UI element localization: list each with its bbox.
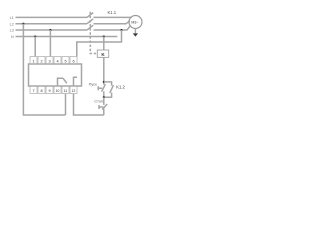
contactor K1.1 mechanical link dashed	[90, 12, 97, 54]
terminal 5	[62, 57, 69, 65]
node L2 tap junction	[22, 23, 24, 25]
ground lead	[134, 29, 136, 34]
node N tap junction for terminal 1	[34, 35, 36, 37]
wire N to terminal 1	[34, 37, 36, 57]
contact K1.2 bottom stub and return wire	[104, 93, 112, 98]
contactor K1.1 pole 1 blade	[87, 13, 93, 18]
svg-text:K1.2: K1.2	[116, 84, 125, 89]
svg-text:3: 3	[48, 59, 50, 63]
relay A1 device box	[29, 64, 82, 86]
node L3 tap junction for terminal 3	[49, 29, 51, 31]
wire terminal 12 to stop button	[74, 94, 104, 116]
wire L2 line	[16, 23, 88, 25]
node L3 tap junction for coil branch	[120, 29, 122, 31]
svg-text:5: 5	[64, 59, 66, 63]
svg-text:L2: L2	[10, 22, 14, 26]
svg-text:1: 1	[32, 59, 34, 63]
relay output contact blade	[63, 78, 67, 83]
svg-text:L1: L1	[10, 16, 14, 20]
node N tap junction for coil	[103, 35, 105, 37]
wire N line	[16, 36, 118, 38]
wire L2 drop to bottom loop	[23, 24, 65, 115]
motor M1 circle	[129, 16, 142, 29]
terminal 8	[38, 86, 45, 94]
svg-text:11: 11	[64, 89, 68, 93]
terminal 1	[30, 57, 37, 65]
terminal 4	[54, 57, 61, 65]
wire L1 line	[16, 16, 88, 18]
relay output contact common stub (terminal 10)	[58, 78, 64, 85]
coil K1 box	[97, 50, 108, 57]
svg-text:Пуск: Пуск	[89, 82, 97, 86]
wire L1 after contact	[94, 16, 132, 18]
svg-text:8: 8	[40, 89, 42, 93]
svg-text:12: 12	[72, 89, 76, 93]
node junction start/K1.2 top	[103, 81, 105, 83]
wire L2 after contact	[94, 21, 130, 24]
terminal 12	[70, 86, 77, 94]
node junction stop top	[103, 96, 105, 98]
svg-text:10: 10	[56, 89, 60, 93]
svg-text:7: 7	[32, 89, 34, 93]
svg-text:N: N	[11, 35, 14, 39]
svg-text:M3~: M3~	[131, 20, 138, 24]
terminal 2	[38, 57, 45, 65]
pushbutton Stop bottom stub	[103, 109, 105, 115]
svg-text:4: 4	[56, 59, 58, 63]
ground symbol	[133, 33, 138, 36]
svg-text:L3: L3	[10, 29, 14, 33]
terminal 9	[46, 86, 53, 94]
contact K1.2 blade	[110, 85, 114, 93]
contactor K1.1 pole 3 blade	[87, 25, 93, 30]
svg-text:K1.1: K1.1	[108, 10, 117, 15]
terminal 6	[70, 57, 77, 65]
wire N tap to coil K1	[103, 37, 105, 51]
wire up to terminal 11	[65, 94, 67, 116]
wire L3 tap to terminal 6	[77, 30, 122, 57]
contactor K1.1 pole 2 blade	[87, 19, 93, 24]
wire coil K1 to start button	[103, 57, 105, 85]
wire L3 line	[16, 29, 88, 31]
pushbutton Stop top stub	[103, 97, 105, 105]
contact K1.2 branch top wire	[104, 82, 112, 86]
terminal 3	[46, 57, 53, 65]
pushbutton Stop actuator	[99, 105, 103, 109]
pushbutton Start bottom stub	[103, 91, 105, 97]
svg-text:6: 6	[72, 59, 74, 63]
terminal 7	[30, 86, 37, 94]
svg-text:9: 9	[48, 89, 50, 93]
pushbutton Stop NC blade	[102, 104, 107, 110]
terminal 11	[62, 86, 69, 94]
pushbutton Start NO blade	[102, 84, 106, 91]
terminal 10	[54, 86, 61, 94]
wire L3 after contact	[94, 25, 131, 30]
svg-text:2: 2	[40, 59, 42, 63]
wire L3 to terminal 3	[49, 30, 51, 57]
pushbutton Start actuator	[98, 86, 102, 90]
relay output contact NO hook (terminal 12)	[74, 77, 78, 85]
svg-text:Стоп: Стоп	[94, 100, 103, 104]
